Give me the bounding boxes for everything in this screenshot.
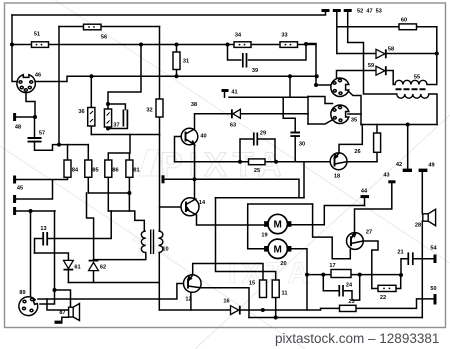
wire plate53 stem to secondary <box>348 12 397 95</box>
wire diode58 row y53.5 <box>337 54 437 84</box>
svg-text:29: 29 <box>260 131 266 137</box>
svg-text:51: 51 <box>34 32 40 38</box>
svg-text:28: 28 <box>415 223 421 229</box>
wire transistor14 base <box>160 206 182 208</box>
svg-text:13: 13 <box>40 226 46 232</box>
wire transformer10 left bottom to diode62 <box>94 253 146 260</box>
svg-text:25: 25 <box>254 168 260 174</box>
diode D61 <box>64 260 74 269</box>
svg-text:44: 44 <box>361 189 368 195</box>
wire x159.5 coil bottom drop <box>158 253 160 311</box>
wire R26 ties <box>376 125 378 162</box>
wire motor rail loop <box>248 204 313 249</box>
svg-text:58: 58 <box>388 47 394 53</box>
wire jog to R11 top <box>216 264 276 281</box>
svg-text:36: 36 <box>78 109 84 115</box>
svg-text:35: 35 <box>351 118 357 124</box>
capacitor C39 <box>243 53 247 68</box>
resistor R85 <box>85 160 92 177</box>
svg-text:41: 41 <box>231 90 237 96</box>
wire y27 row left segment <box>59 26 160 28</box>
resistor R51 <box>32 42 49 48</box>
svg-text:50: 50 <box>430 286 436 292</box>
svg-text:pixtastock.com – 12893381: pixtastock.com – 12893381 <box>275 331 439 346</box>
tube socket V89 <box>19 297 38 316</box>
wire diode62 legs <box>93 271 95 283</box>
watermark PIXTA ghost text <box>160 146 288 184</box>
wire diode63 to nest <box>241 113 309 115</box>
wire ground42 stem <box>407 125 409 169</box>
svg-text:81: 81 <box>133 168 139 174</box>
svg-text:34: 34 <box>235 33 242 39</box>
wire transistor27 collector to plate43 <box>355 183 392 232</box>
transistor Q18 <box>330 153 347 170</box>
transformer T10 left coil <box>141 231 146 253</box>
transformer T10 core <box>151 230 154 255</box>
wire row y274.6 <box>307 274 401 276</box>
wire left drop to socket 46 <box>12 15 17 82</box>
wire R22 hang <box>372 275 401 289</box>
capacitor C13 <box>43 232 47 246</box>
tube socket V46 <box>17 75 35 93</box>
wire socket43 top pin to diode59 <box>337 71 376 79</box>
svg-text:56: 56 <box>101 35 107 41</box>
resistor R22 <box>378 285 396 291</box>
wire cap13 right lead <box>48 211 111 239</box>
transformer T55 primary coil <box>395 80 427 84</box>
diode D62 <box>89 261 99 271</box>
wire nest to socket35 top pin <box>308 97 333 104</box>
resistor R81 <box>126 160 133 177</box>
svg-text:16: 16 <box>223 299 229 305</box>
wire cap24 branch <box>323 275 359 301</box>
svg-text:39: 39 <box>252 68 258 74</box>
resistor R60 <box>399 24 417 30</box>
transistor Q40 <box>181 128 198 145</box>
svg-text:60: 60 <box>401 18 407 24</box>
svg-text:89: 89 <box>19 290 25 296</box>
wire x290 tie y76-y97 <box>289 76 291 97</box>
transformer T55 core <box>396 88 426 90</box>
wire cap27 parallel leads <box>108 104 127 129</box>
terminal plate 44 <box>361 195 370 198</box>
resistor R86 <box>105 160 112 177</box>
svg-text:55: 55 <box>414 75 420 81</box>
capacitor C29 <box>254 133 257 146</box>
wire cap29 loop <box>240 139 275 162</box>
capacitor C57 <box>28 138 42 142</box>
svg-text:46: 46 <box>35 73 41 79</box>
svg-text:33: 33 <box>281 33 287 39</box>
resistor R25 <box>249 159 266 165</box>
transistor Q27 <box>347 233 364 250</box>
resistor R36 <box>88 108 95 127</box>
terminal plate 41 <box>222 89 229 92</box>
svg-text:86: 86 <box>112 168 118 174</box>
terminal ground 87 <box>55 321 63 324</box>
svg-text:20: 20 <box>280 261 286 267</box>
wire x141 drop to R37 top <box>108 45 141 105</box>
wire transformer10 left top lead <box>108 211 144 231</box>
wire row y197.7 <box>216 197 305 199</box>
wire cap57 bottom jog to rail B <box>35 142 89 151</box>
wire x54.5 column <box>40 211 55 304</box>
wire socket43 right pin steps <box>348 91 362 125</box>
resistor R11 <box>272 280 279 298</box>
motor M20 <box>264 239 291 258</box>
transformer T10 right coil <box>158 231 163 253</box>
terminal plate 49 <box>419 169 428 172</box>
svg-text:23: 23 <box>348 299 354 305</box>
svg-text:M: M <box>274 220 282 231</box>
svg-text:85: 85 <box>92 168 98 174</box>
capacitor C21 <box>408 252 413 265</box>
wire R32 bottom to rail A <box>159 117 161 135</box>
wire socket89 top lead <box>30 211 32 296</box>
svg-text:31: 31 <box>183 59 189 65</box>
wire motor19 right jog to plate44 <box>292 206 365 225</box>
svg-text:M: M <box>274 244 282 255</box>
svg-text:22: 22 <box>380 295 386 301</box>
svg-text:37: 37 <box>113 123 119 129</box>
wire diode62 top jog <box>87 193 94 260</box>
wire transistor14 emitter row y225 <box>197 215 265 225</box>
wire motor20 right drop <box>292 249 308 310</box>
wire socket46 right to long y76 rail <box>36 76 317 81</box>
terminal 48 <box>16 116 36 118</box>
svg-text:62: 62 <box>100 265 106 271</box>
wire x159.5 drop to R32 <box>159 27 161 100</box>
wire ground87 tie <box>62 317 69 321</box>
svg-text:42: 42 <box>396 162 402 168</box>
wire nest to socket35 lower pin <box>308 120 333 125</box>
svg-text:14: 14 <box>199 200 206 206</box>
resistor R56 <box>84 24 102 30</box>
svg-text:30: 30 <box>299 142 305 148</box>
wire R36 top lead <box>90 76 92 107</box>
svg-text:IXTA: IXTA <box>228 257 314 290</box>
terminal plates 45 <box>13 176 16 216</box>
wire cap21 riser <box>401 259 434 275</box>
terminal plate mid-left with stub <box>165 178 195 180</box>
resistor R23 <box>340 305 357 311</box>
wire row y179.5 to drop x299 <box>195 179 300 197</box>
wire y27 right row through R60 <box>337 27 437 54</box>
terminal plate 47 <box>333 9 341 12</box>
svg-text:38: 38 <box>191 102 197 108</box>
capacitor C24 <box>339 285 343 297</box>
svg-text:32: 32 <box>146 108 152 114</box>
wire R36 bottom lead <box>90 126 92 135</box>
terminal plate 50 <box>434 294 437 305</box>
terminal plate 53 <box>344 9 352 12</box>
wire socket35 right stub <box>348 113 361 115</box>
svg-text:52 47 53: 52 47 53 <box>357 9 382 15</box>
svg-text:57: 57 <box>39 131 45 137</box>
speaker SP28 <box>423 209 436 225</box>
wire transformer55 primary right tie <box>427 84 437 86</box>
wire plate41 row y97 <box>225 92 309 98</box>
svg-text:26: 26 <box>354 149 360 155</box>
wire diode59 to transformer55 primary <box>386 71 396 85</box>
svg-text:84: 84 <box>72 168 79 174</box>
wire transistor18 collector jog <box>339 125 362 153</box>
wire R11 bottom lead <box>275 298 277 318</box>
capacitor C27 <box>123 110 127 127</box>
svg-text:19: 19 <box>261 233 267 239</box>
resistor R17 <box>331 270 351 278</box>
wire speaker column <box>421 172 423 318</box>
diode D59 <box>376 66 386 75</box>
tube socket V43 <box>331 78 349 96</box>
wire main mid row y161.8 <box>175 161 331 163</box>
wire socket46 bottom to node48 <box>26 93 35 118</box>
wire R86 R81 top rail y153 <box>108 135 130 161</box>
wire rail y124.5 <box>361 124 437 126</box>
capacitor C30 <box>290 133 300 137</box>
svg-text:12: 12 <box>185 297 191 303</box>
wire y44.5 to socket43 nest corner <box>306 43 316 45</box>
svg-text:63: 63 <box>230 123 236 129</box>
wire main row y44.5 <box>12 45 316 86</box>
wire transistor18 right <box>347 161 377 163</box>
wire R31 leads <box>176 45 178 77</box>
wire diode61 hang <box>35 253 69 283</box>
wire transistor27 base jog <box>364 241 379 275</box>
junction dots <box>10 43 14 47</box>
wire t12 emitter <box>190 293 192 311</box>
wire transistor40 emitter down <box>194 145 196 199</box>
wire x59 drop <box>58 27 60 145</box>
wire t12 collector row to R15 <box>193 264 263 281</box>
svg-text:18: 18 <box>334 174 340 180</box>
svg-text:48: 48 <box>15 125 21 131</box>
tube socket V35 <box>331 105 349 123</box>
wire R37 leads <box>107 104 109 129</box>
terminal plate 48 <box>13 113 16 121</box>
terminal plate mid (emitter node) <box>162 175 165 183</box>
wire transistor40 collector up and right (node 38) <box>195 114 232 129</box>
transformer T55 secondary coil <box>397 94 429 98</box>
wire plates45 leads <box>16 177 68 211</box>
svg-text:10: 10 <box>162 247 168 253</box>
wire node48 to cap57 <box>34 117 36 138</box>
wire cap39 branch <box>228 45 307 61</box>
wire cap30 leads <box>283 97 295 162</box>
wire t12 right staircase <box>201 288 249 318</box>
svg-text:45: 45 <box>17 186 23 192</box>
resistor R34 <box>234 42 251 48</box>
wire diode row y282.5 <box>68 282 159 284</box>
wire R85 top lead <box>87 145 89 160</box>
wire R23 row to plate50 <box>321 299 434 309</box>
speaker SP87 <box>69 304 80 321</box>
svg-text:43: 43 <box>383 173 389 179</box>
svg-text:87: 87 <box>59 310 65 316</box>
transistor Q14 <box>181 198 199 216</box>
wire nest verticals <box>307 97 309 125</box>
terminal ground 42 <box>403 169 412 172</box>
wire rail A down to transformer/transistor base <box>159 135 161 232</box>
wire top rail y15 <box>12 11 326 16</box>
resistor R84 <box>64 160 71 177</box>
wire transistor40 base <box>175 137 182 162</box>
wire diode16 row y310 <box>159 308 320 310</box>
wire secondary right to rail y124.5 <box>429 94 437 125</box>
resistor R26 <box>374 133 381 152</box>
wire row y317.5 <box>249 317 422 319</box>
svg-text:24: 24 <box>346 283 353 289</box>
diode D16 <box>231 306 240 315</box>
resistor R15 <box>260 280 267 298</box>
svg-text:40: 40 <box>200 134 206 140</box>
terminal plate 52 <box>322 9 330 12</box>
wire motor rail right drop to t27 emitter <box>313 204 351 259</box>
wire rail A y134.5 <box>91 134 159 136</box>
watermark logo diamond <box>139 150 165 176</box>
svg-text:11: 11 <box>282 291 288 297</box>
svg-text:54: 54 <box>430 246 437 252</box>
svg-text:59: 59 <box>368 63 374 69</box>
svg-text:61: 61 <box>74 265 80 271</box>
motor M19 <box>264 214 291 233</box>
transistor Q12 <box>184 275 202 293</box>
wire socket43 left pin <box>316 84 331 86</box>
diode D63 <box>232 109 241 118</box>
svg-text:21: 21 <box>397 250 403 256</box>
diode D58 <box>376 49 386 58</box>
wire socket89 speaker top feed <box>55 290 71 307</box>
wire x215.5 tie <box>215 198 217 264</box>
wire x304 tie y162-y198 <box>303 162 305 198</box>
resistor R32 <box>156 99 163 117</box>
terminal plate 54 <box>434 255 437 264</box>
wire plate47 stem <box>336 12 338 54</box>
resistor R37 <box>104 109 111 127</box>
wire R84 top lead <box>67 145 69 160</box>
wire cap13 left jog <box>35 239 43 254</box>
wire plate44 stem <box>364 198 366 206</box>
svg-text:27: 27 <box>366 230 372 236</box>
wire speaker87 feed <box>47 299 69 310</box>
resistor R33 <box>280 42 298 48</box>
wire y193 row <box>88 177 129 211</box>
svg-text:15: 15 <box>249 281 255 287</box>
wire t12 base to socket89 <box>38 284 184 300</box>
svg-text:17: 17 <box>329 263 335 269</box>
terminal plate 43 <box>388 180 395 183</box>
svg-text:PIXTA: PIXTA <box>160 146 288 184</box>
svg-text:49: 49 <box>428 163 434 169</box>
resistor R31 <box>173 52 180 70</box>
